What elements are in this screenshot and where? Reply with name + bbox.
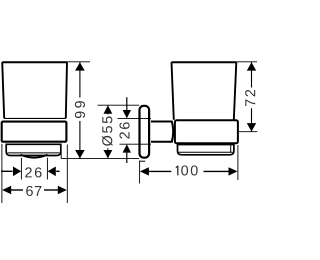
- label 100: [176, 165, 198, 175]
- arrowheads dim 100: [140, 167, 238, 175]
- arrowheads dim 72: [247, 62, 256, 131]
- ext top: [67, 61, 90, 63]
- label 26 front: [25, 167, 41, 177]
- holder band front: [2, 122, 67, 142]
- arrowheads dim 99: [75, 62, 85, 158]
- bracket bottom arc: [21, 155, 48, 158]
- glass side: [172, 61, 237, 63]
- hub: [151, 122, 173, 142]
- label 72: [245, 90, 255, 106]
- dish side: [178, 145, 234, 155]
- wall plate bar (side): [140, 106, 150, 158]
- label 26 side: [119, 122, 129, 138]
- dish front: [6, 144, 61, 155]
- glass front: right side: [66, 62, 67, 118]
- dim line: [79, 62, 81, 97]
- glass front: bottom thin line: [4, 117, 66, 119]
- label 67: [26, 186, 41, 196]
- ext bottom (shared with diam55 bottom ext): [61, 158, 139, 160]
- label diam 55: [102, 116, 113, 146]
- arrowheads dim 67: [2, 186, 67, 194]
- label 99: [75, 101, 85, 118]
- arrowheads dim 26 front: [13, 167, 56, 177]
- stub below bar bottom corner: [140, 160, 146, 162]
- ring band side: [175, 120, 238, 143]
- arrowheads dim 26 side: [123, 110, 131, 153]
- arrowheads dim diam55: [104, 105, 113, 158]
- glass front: top rim: [2, 61, 67, 63]
- glass front: left side: [2, 62, 4, 118]
- dish inner line: [8, 152, 60, 154]
- dish side inner right wall: [230, 145, 232, 152]
